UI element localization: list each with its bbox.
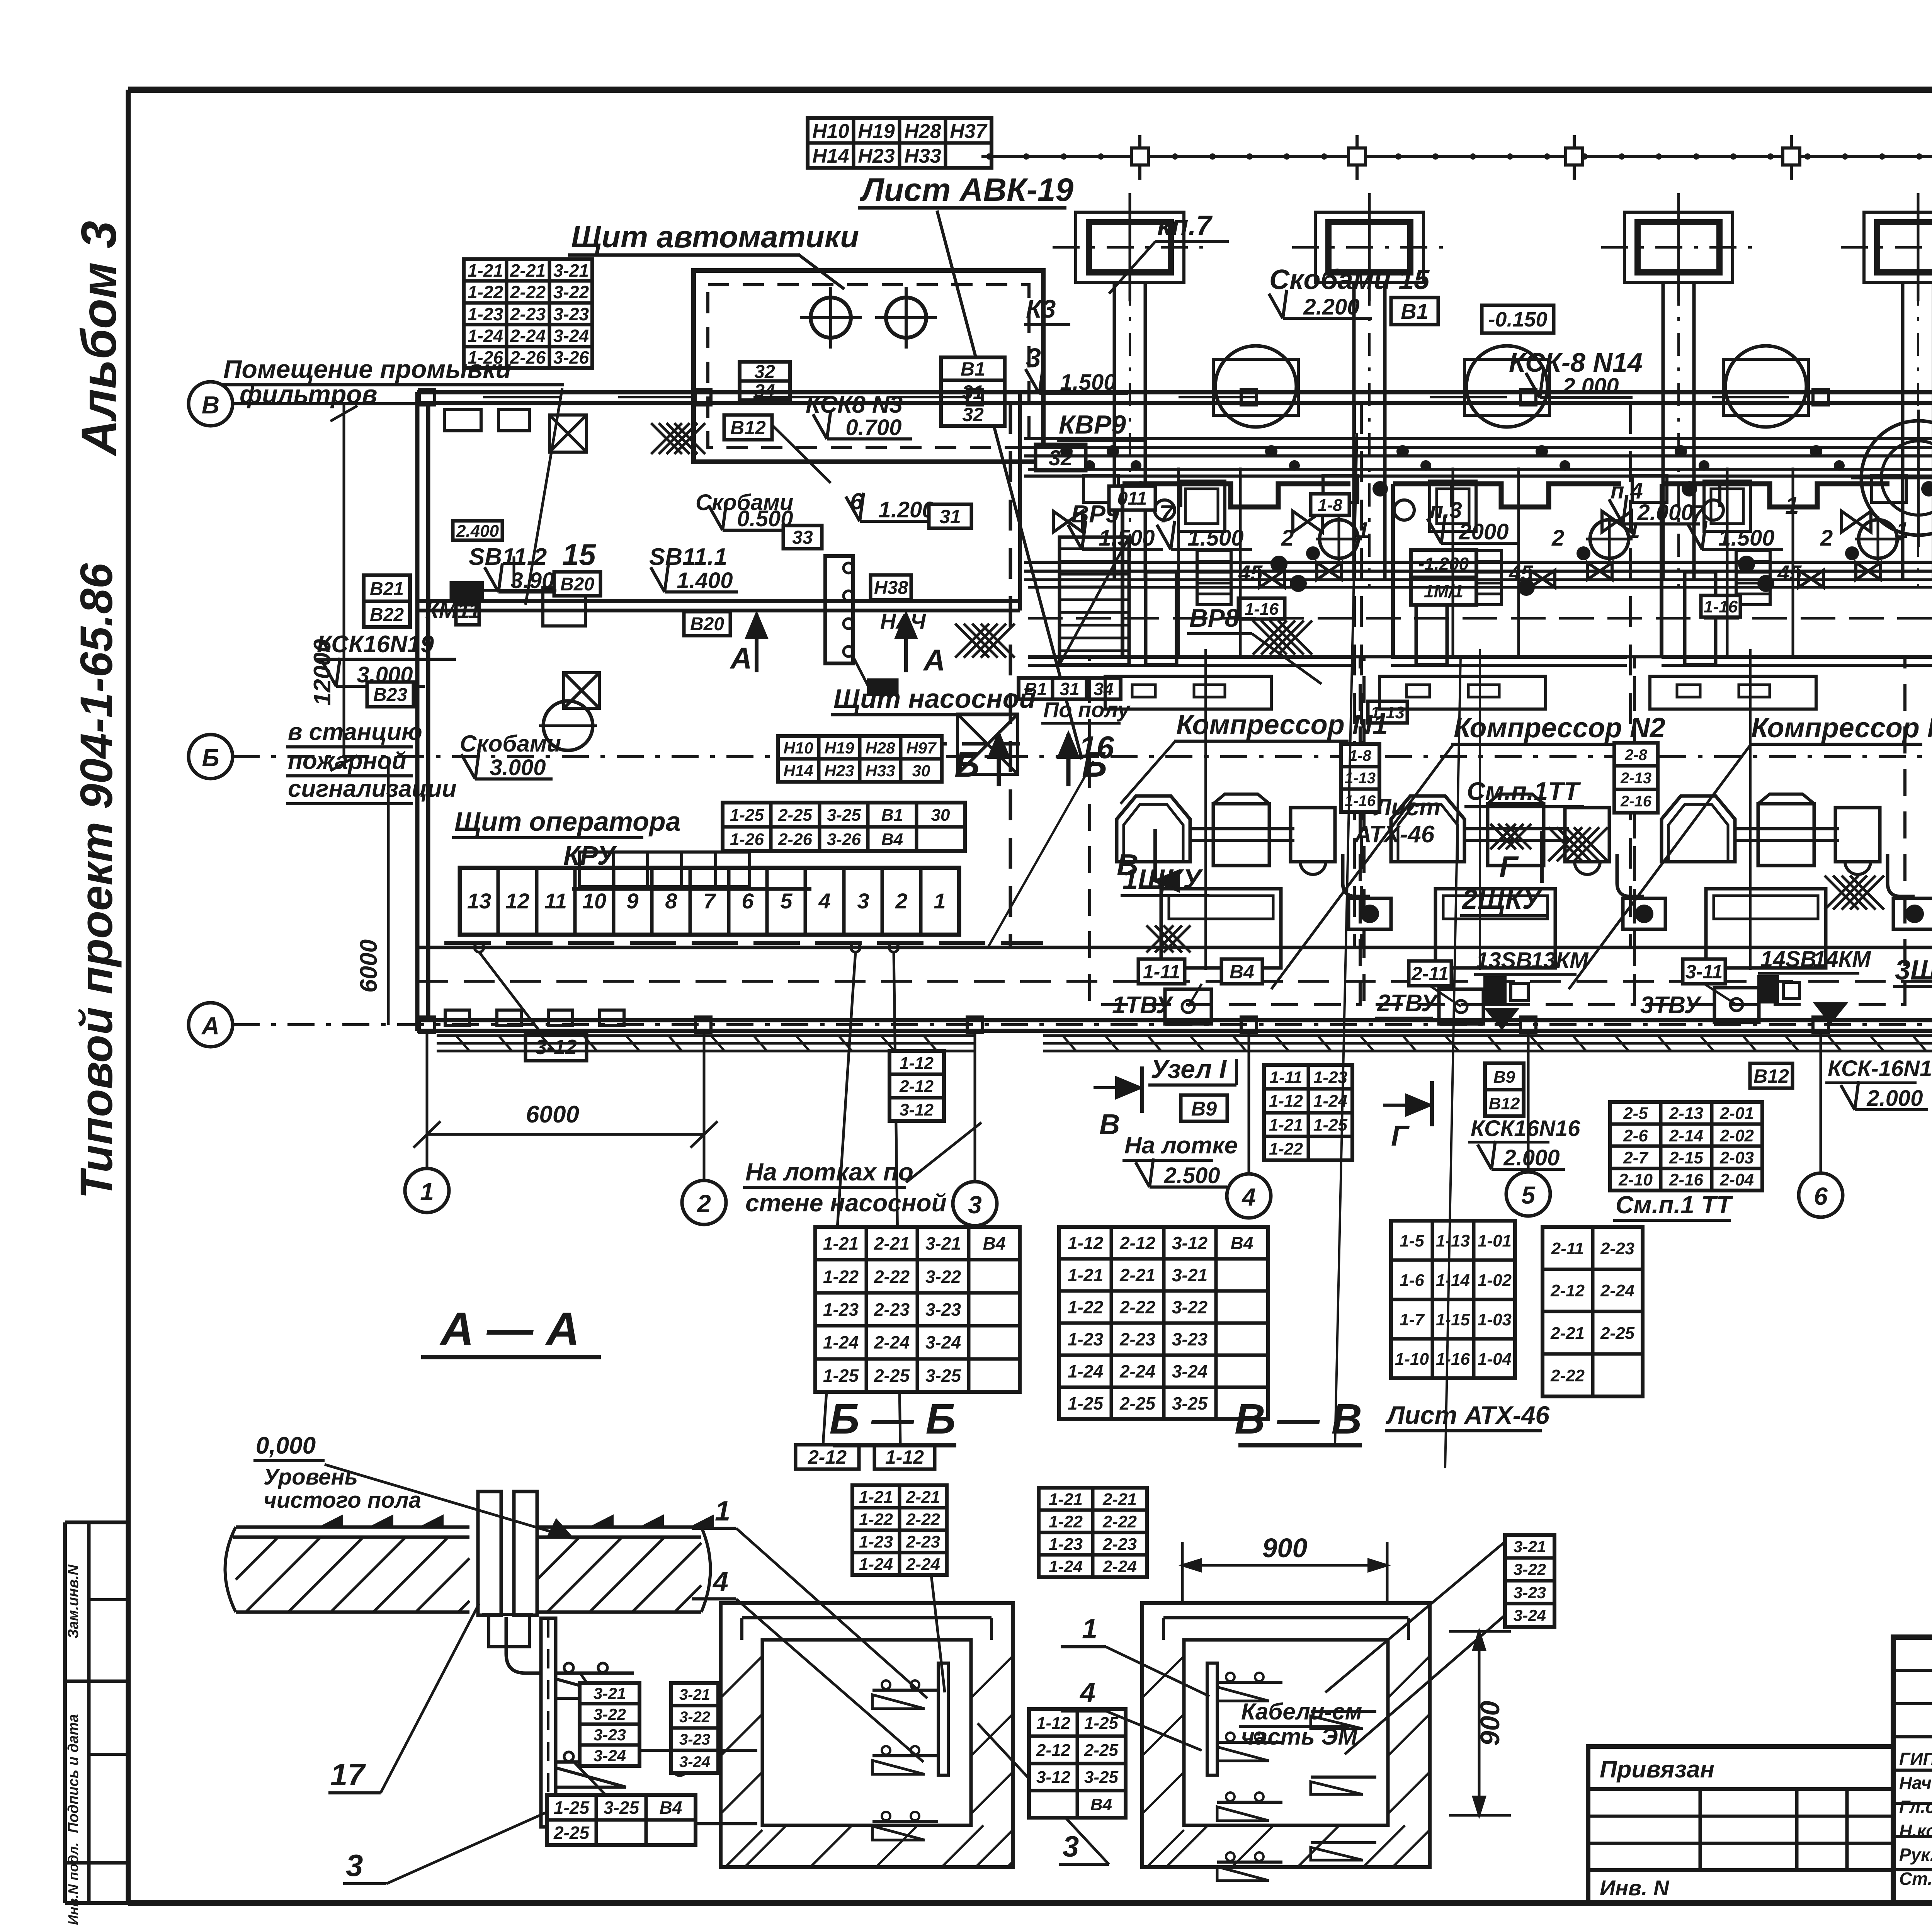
svg-text:2-23: 2-23 [906, 1532, 940, 1551]
table 32/34 [740, 362, 790, 400]
axis A circle [189, 1003, 233, 1047]
svg-text:1-23: 1-23 [468, 304, 503, 324]
table B-B col2 [1039, 1488, 1147, 1577]
flag 2.000 [1540, 396, 1633, 399]
leaders corridor [1188, 984, 1202, 1007]
ladder symbol [1197, 551, 1231, 605]
svg-text:2ТВУ: 2ТВУ [1377, 990, 1439, 1017]
dim 900 over V-V [1182, 1564, 1387, 1567]
svg-text:Компрессор N3: Компрессор N3 [1751, 713, 1932, 743]
svg-text:1-23: 1-23 [1049, 1535, 1083, 1554]
label 1-8 box hall1 [1311, 494, 1349, 515]
svg-text:В4: В4 [1090, 1795, 1112, 1814]
pump station panel [825, 556, 853, 663]
svg-text:2-04: 2-04 [1719, 1170, 1754, 1189]
svg-text:6: 6 [1814, 1182, 1828, 1210]
leader T15 to plan [987, 761, 1094, 949]
A-A bracket 2 [556, 1760, 634, 1764]
svg-text:В20: В20 [560, 574, 594, 595]
svg-text:900: 900 [1262, 1533, 1308, 1563]
svg-text:13: 13 [467, 889, 491, 913]
A-A floor line arrows [321, 1516, 342, 1527]
svg-text:2.200: 2.200 [1303, 294, 1359, 320]
hall partition 1-2 [1353, 403, 1356, 949]
drawing frame border [128, 87, 1932, 93]
svg-text:15: 15 [562, 537, 596, 571]
compressor unit N1 shaft [1190, 827, 1294, 830]
box 3-11 [1683, 959, 1725, 984]
svg-text:3-22: 3-22 [679, 1709, 710, 1726]
svg-text:Н.контр.: Н.контр. [1899, 1821, 1932, 1841]
svg-text:часть ЭМ: часть ЭМ [1241, 1724, 1358, 1750]
svg-text:Н10: Н10 [783, 739, 813, 757]
svg-text:стене насосной: стене насосной [745, 1189, 947, 1217]
svg-text:Компрессор N2: Компрессор N2 [1454, 713, 1665, 743]
svg-text:3-12: 3-12 [1172, 1233, 1207, 1253]
svg-text:2-01: 2-01 [1719, 1104, 1754, 1123]
svg-text:3.000: 3.000 [490, 755, 546, 780]
svg-text:2: 2 [1281, 526, 1294, 551]
svg-text:3-22: 3-22 [553, 282, 589, 302]
south wall [417, 1018, 1932, 1022]
vertical dimension 6000 [387, 757, 390, 1025]
machine bay front edge [1662, 484, 1889, 507]
svg-text:1-16: 1-16 [1704, 597, 1738, 616]
svg-text:3: 3 [1026, 343, 1041, 373]
title block outline [1893, 1637, 1932, 1903]
svg-text:Альбом 3: Альбом 3 [71, 221, 127, 457]
svg-text:31: 31 [939, 506, 961, 527]
svg-text:2: 2 [1551, 526, 1564, 551]
box 1-13 hall1 [1368, 701, 1407, 723]
svg-text:А: А [730, 641, 752, 675]
svg-text:2-03: 2-03 [1719, 1148, 1754, 1167]
svg-text:3-23: 3-23 [1172, 1329, 1207, 1349]
svg-text:3-24: 3-24 [594, 1747, 626, 1765]
svg-text:См.п.1 ТТ: См.п.1 ТТ [1616, 1191, 1733, 1219]
collector pipes [1024, 437, 1932, 440]
svg-text:Зам.инв.N: Зам.инв.N [65, 1564, 82, 1639]
box V20 second [684, 612, 730, 636]
svg-text:2-10: 2-10 [1618, 1170, 1653, 1189]
black dots equipment [1270, 556, 1287, 573]
svg-text:7: 7 [1159, 500, 1174, 528]
svg-text:3-23: 3-23 [553, 304, 589, 324]
corridor wall [417, 946, 1932, 949]
pit B-B cable stand [938, 1663, 948, 1775]
partition washroom right [1009, 403, 1012, 949]
svg-text:1-14: 1-14 [1436, 1271, 1470, 1290]
svg-text:1.500: 1.500 [1099, 526, 1155, 551]
svg-text:В4: В4 [983, 1233, 1006, 1253]
table H10 H19 H28 H37 [808, 118, 992, 168]
svg-text:чистого пола: чистого пола [264, 1488, 421, 1513]
title block left box privyazan [1588, 1747, 1893, 1903]
svg-text:Н33: Н33 [865, 762, 895, 780]
svg-text:В12: В12 [1489, 1094, 1520, 1113]
washroom pump circle [543, 701, 593, 750]
machine bay front edge [1393, 484, 1621, 507]
A-A vertical channel [541, 1618, 556, 1827]
axis V circle [189, 382, 233, 426]
crane hanger [1138, 135, 1141, 180]
box 31 [929, 504, 971, 528]
box V9 corridor [1181, 1095, 1227, 1121]
dashed panel outline [846, 742, 1020, 746]
crane hanger [1790, 135, 1793, 180]
svg-text:1: 1 [934, 889, 946, 913]
svg-text:3-24: 3-24 [1514, 1606, 1546, 1624]
svg-text:1-03: 1-03 [1478, 1310, 1512, 1329]
svg-text:Помещение промывки: Помещение промывки [223, 355, 511, 383]
svg-text:Лист АВК-19: Лист АВК-19 [859, 172, 1073, 208]
grid circle 2 [682, 1180, 726, 1225]
svg-text:Щит оператора: Щит оператора [454, 806, 681, 837]
svg-text:1М/1: 1М/1 [1424, 581, 1463, 601]
svg-text:1-25: 1-25 [823, 1366, 859, 1386]
dimension 6000 bottom [427, 1133, 704, 1136]
compressor unit N3 centerline [1749, 649, 1752, 970]
machine bay front edge [1122, 484, 1350, 507]
svg-text:2.000: 2.000 [1637, 500, 1693, 525]
stair block [1060, 537, 1129, 665]
box V1 [1391, 298, 1438, 325]
crane hanger [1573, 135, 1576, 180]
svg-text:В12: В12 [1753, 1065, 1789, 1087]
box 2-11 [1409, 961, 1451, 986]
svg-text:1-23: 1-23 [823, 1299, 859, 1320]
x-cross box near stairs [957, 714, 1018, 774]
svg-text:1-12: 1-12 [900, 1054, 934, 1073]
svg-text:2-02: 2-02 [1719, 1126, 1754, 1145]
svg-text:Ст.инж.: Ст.инж. [1899, 1869, 1932, 1889]
table group A col3 [815, 1227, 1020, 1392]
svg-text:13SB: 13SB [1476, 948, 1532, 973]
compressor unit N1 cable elbow [1343, 854, 1370, 896]
north wall [417, 390, 1932, 395]
compressor unit N1 equipment shelf [1105, 676, 1271, 709]
compressor unit N1 bearing [1291, 808, 1335, 862]
svg-text:8: 8 [665, 889, 677, 913]
svg-text:31: 31 [1060, 679, 1079, 699]
svg-text:1-8: 1-8 [1349, 747, 1372, 764]
svg-text:1-8: 1-8 [1318, 496, 1342, 515]
svg-text:Лист: Лист [1373, 794, 1440, 821]
stack V9 V12 [1485, 1063, 1524, 1116]
table group 2-11 [1543, 1227, 1643, 1396]
svg-text:3-22: 3-22 [594, 1705, 626, 1723]
svg-text:3-21: 3-21 [553, 260, 589, 281]
leader to automation panel [799, 255, 844, 289]
svg-text:2: 2 [895, 889, 907, 913]
svg-text:3-24: 3-24 [925, 1332, 961, 1352]
svg-text:3-12: 3-12 [1036, 1768, 1071, 1787]
svg-text:1-25: 1-25 [1084, 1714, 1119, 1733]
flag 2.200 [1283, 317, 1372, 320]
compressor unit N2 motor [1488, 804, 1544, 866]
svg-text:2-13: 2-13 [1669, 1104, 1703, 1123]
svg-text:1: 1 [1082, 1614, 1097, 1645]
svg-text:2-21: 2-21 [510, 260, 546, 281]
svg-text:3-22: 3-22 [925, 1267, 961, 1287]
pit V-V outline [1142, 1603, 1430, 1867]
svg-text:2-24: 2-24 [906, 1555, 940, 1574]
window slots in north wall [483, 396, 560, 398]
svg-text:Н14: Н14 [783, 762, 813, 780]
svg-text:13КМ: 13КМ [1531, 948, 1589, 973]
table 1-21..3-26 top left [464, 259, 592, 368]
svg-text:1-15: 1-15 [1436, 1310, 1470, 1329]
grid circle 4 [1227, 1174, 1271, 1218]
svg-text:2-26: 2-26 [778, 830, 813, 849]
svg-text:3-11: 3-11 [1685, 961, 1723, 983]
svg-text:3-24: 3-24 [1172, 1361, 1207, 1381]
automation panel rectangle [694, 270, 1043, 462]
svg-text:2-25: 2-25 [778, 806, 813, 825]
svg-text:2-25: 2-25 [874, 1366, 910, 1386]
svg-text:В1: В1 [961, 358, 985, 380]
svg-text:3-21: 3-21 [1514, 1537, 1546, 1556]
svg-text:В21: В21 [370, 579, 404, 599]
svg-text:Рук.гр.: Рук.гр. [1899, 1845, 1932, 1865]
svg-text:Н10: Н10 [812, 120, 849, 143]
compressor unit N3 equipment shelf [1650, 676, 1816, 709]
svg-text:Н28: Н28 [904, 120, 941, 143]
svg-text:А: А [201, 1012, 219, 1040]
svg-text:1-22: 1-22 [823, 1267, 859, 1287]
compressor unit N1 centerline [1204, 649, 1207, 970]
box V12 [724, 415, 772, 440]
svg-text:Компрессор N1: Компрессор N1 [1176, 709, 1388, 740]
svg-text:1-22: 1-22 [1049, 1512, 1083, 1531]
svg-text:3-21: 3-21 [1172, 1265, 1207, 1285]
svg-text:1-12: 1-12 [885, 1446, 924, 1468]
svg-text:В9: В9 [1493, 1068, 1515, 1087]
svg-text:3-24: 3-24 [553, 326, 589, 346]
svg-text:Н19: Н19 [824, 739, 854, 757]
svg-text:К3: К3 [1026, 294, 1056, 323]
13SB device symbols [1485, 978, 1505, 1005]
svg-text:1-21: 1-21 [859, 1488, 893, 1507]
svg-text:1-16: 1-16 [1245, 600, 1279, 619]
svg-text:6000: 6000 [526, 1101, 579, 1128]
svg-text:3-23: 3-23 [1514, 1583, 1546, 1602]
svg-text:1-5: 1-5 [1400, 1231, 1424, 1250]
svg-text:1-26: 1-26 [730, 830, 764, 849]
svg-text:17: 17 [330, 1757, 366, 1792]
svg-text:2-22: 2-22 [1550, 1366, 1585, 1385]
svg-text:2-25: 2-25 [1119, 1393, 1156, 1413]
axis B circle [189, 735, 233, 779]
stand rectangle [1146, 572, 1177, 665]
svg-text:2-11: 2-11 [1411, 963, 1449, 985]
equipment stands upper halls [1179, 481, 1225, 531]
svg-text:На лотках по: На лотках по [745, 1158, 913, 1186]
A-A elbow pipe [506, 1617, 541, 1673]
svg-text:2-24: 2-24 [1600, 1281, 1634, 1300]
svg-text:2-21: 2-21 [874, 1233, 910, 1253]
svg-text:В4: В4 [881, 830, 903, 849]
svg-text:3ЩКУ: 3ЩКУ [1895, 955, 1932, 986]
pit V-V cable stand [1207, 1663, 1217, 1775]
svg-text:5: 5 [1521, 1181, 1536, 1209]
box V4 corridor [1221, 959, 1262, 984]
stack 1-12 2-12 3-12 [889, 1051, 944, 1121]
dashed link lines [482, 589, 556, 592]
svg-text:2.000: 2.000 [1562, 374, 1619, 399]
svg-text:1.200: 1.200 [878, 497, 934, 522]
svg-text:1-21: 1-21 [1068, 1265, 1103, 1285]
risers and valves row [1083, 475, 1118, 502]
small instrument squares [451, 583, 482, 600]
svg-text:2-22: 2-22 [874, 1267, 910, 1287]
svg-text:2-25: 2-25 [553, 1823, 590, 1843]
box 1-11 [1138, 959, 1185, 984]
svg-text:2-11: 2-11 [1551, 1239, 1584, 1258]
svg-text:Н23: Н23 [858, 145, 895, 167]
svg-text:1.500: 1.500 [1187, 526, 1243, 551]
ladder symbol [1736, 551, 1770, 605]
box V12 corridor right [1750, 1063, 1793, 1088]
svg-text:КСК-16N17: КСК-16N17 [1828, 1056, 1932, 1081]
duct columns from vents [1113, 282, 1116, 580]
section mark G bottom [1430, 1081, 1434, 1126]
svg-text:0.700: 0.700 [845, 415, 901, 440]
svg-text:2.500: 2.500 [1163, 1163, 1220, 1188]
pit B-B wall hatching [721, 1656, 762, 1698]
table 1-25 .. V4 middle [723, 803, 965, 851]
section line B vertical [1335, 433, 1357, 1445]
svg-text:3-25: 3-25 [1084, 1768, 1119, 1787]
section mark V bottom [1140, 1066, 1144, 1113]
svg-text:3-21: 3-21 [925, 1233, 961, 1253]
table group B col4 [1059, 1227, 1268, 1419]
valves pair [1317, 563, 1342, 580]
box 1-12 leader label [874, 1445, 935, 1469]
grid circle 6 [1799, 1173, 1843, 1217]
leader na lotkakh [906, 1122, 981, 1182]
svg-text:Кабели-см: Кабели-см [1241, 1699, 1362, 1725]
svg-text:2-12: 2-12 [1036, 1741, 1071, 1760]
manifold lower [1028, 617, 1932, 620]
svg-text:SB11.2: SB11.2 [469, 544, 547, 570]
A-A slab hatched right part [537, 1526, 701, 1529]
grid circle 3 [953, 1182, 997, 1226]
washroom x-column [564, 673, 599, 708]
svg-text:14КМ: 14КМ [1813, 947, 1871, 972]
pit V-V wall hatching [1142, 1656, 1184, 1698]
svg-text:В12: В12 [730, 417, 766, 439]
svg-text:2-26: 2-26 [510, 347, 546, 367]
svg-text:2: 2 [1820, 526, 1833, 551]
svg-text:4: 4 [818, 889, 830, 913]
svg-text:2-24: 2-24 [1119, 1361, 1155, 1381]
svg-text:Щит автоматики: Щит автоматики [571, 219, 859, 254]
svg-text:В4: В4 [660, 1798, 682, 1818]
svg-text:2-12: 2-12 [1550, 1281, 1585, 1300]
svg-text:1-24: 1-24 [1068, 1361, 1103, 1381]
14SB device symbols [1759, 977, 1777, 1002]
table 1-12 1-25 center [1029, 1709, 1126, 1818]
svg-text:2-24: 2-24 [510, 326, 546, 346]
compressor unit N2 cable elbow [1617, 854, 1644, 896]
svg-text:1-22: 1-22 [1269, 1139, 1303, 1158]
stack 1-8 1-13 1-16 [1341, 744, 1379, 812]
svg-text:Типовой проект 904-1-65.86: Типовой проект 904-1-65.86 [71, 563, 122, 1199]
svg-text:1-11: 1-11 [1270, 1068, 1303, 1087]
stack 3-21..3-24 A-A [580, 1683, 639, 1766]
fan circle 3 [1725, 346, 1806, 427]
svg-text:1.400: 1.400 [677, 568, 733, 593]
leader to wash room [526, 388, 562, 605]
hatch decor marks [1253, 621, 1287, 655]
stack 3-21 right of V-V [1505, 1535, 1554, 1627]
table H10..30 middle [778, 736, 942, 782]
fan circle with cross [1320, 520, 1358, 558]
box 2-12 leader label [796, 1445, 859, 1469]
svg-text:5: 5 [780, 889, 793, 913]
svg-text:1-23: 1-23 [859, 1532, 893, 1551]
flag 1.400 [665, 590, 738, 594]
box 1-16 hall1 [1238, 598, 1285, 619]
svg-text:2-23: 2-23 [1600, 1239, 1634, 1258]
svg-text:3: 3 [346, 1848, 363, 1883]
svg-text:2.000: 2.000 [1503, 1145, 1560, 1170]
pedestal down [1718, 484, 1721, 507]
svg-text:В23: В23 [373, 685, 407, 705]
svg-text:3-21: 3-21 [679, 1686, 710, 1703]
svg-text:3-23: 3-23 [925, 1299, 961, 1320]
stack 2-8 2-13 2-16 [1614, 743, 1658, 813]
boxes V1 31 34 [1019, 678, 1121, 699]
svg-text:Н37: Н37 [950, 120, 987, 143]
svg-text:9: 9 [626, 889, 638, 913]
leader to 3-21 stack [1325, 1542, 1505, 1692]
column marks bottom [419, 1017, 435, 1032]
svg-text:1: 1 [1357, 518, 1369, 543]
svg-text:Подпись и дата: Подпись и дата [65, 1714, 82, 1833]
svg-text:12: 12 [505, 889, 529, 913]
svg-text:Уровень: Уровень [264, 1464, 358, 1490]
compressor unit N3 body [1662, 796, 1735, 862]
pit V-V cavity [1184, 1640, 1388, 1825]
svg-text:1-04: 1-04 [1478, 1350, 1512, 1369]
fan circle 2 [1466, 346, 1548, 427]
svg-text:1-11: 1-11 [1143, 961, 1180, 983]
svg-text:2-23: 2-23 [874, 1299, 910, 1320]
pedestal down [1179, 484, 1182, 507]
section line G vertical [1445, 657, 1461, 1468]
svg-text:1-22: 1-22 [1068, 1297, 1103, 1317]
svg-text:2-25: 2-25 [1084, 1741, 1119, 1760]
compressor unit N1 dashed bay [1090, 657, 1360, 1005]
svg-text:2-12: 2-12 [808, 1446, 847, 1468]
fan circle 1 [1215, 346, 1296, 427]
tank concentric circles [1861, 421, 1932, 535]
svg-text:1-13: 1-13 [1436, 1231, 1470, 1250]
stand rectangle [1416, 572, 1447, 665]
grid circle 5 [1506, 1172, 1550, 1216]
svg-text:2-14: 2-14 [1669, 1126, 1703, 1145]
A-A pipe sleeve [478, 1492, 501, 1615]
svg-text:1-01: 1-01 [1478, 1231, 1512, 1250]
pit B-B top slab [742, 1616, 992, 1619]
svg-text:Лист АТХ-46: Лист АТХ-46 [1386, 1401, 1550, 1429]
table 1-11 1-23 group [1264, 1065, 1352, 1160]
flag 0.700 [827, 437, 912, 440]
svg-text:Н33: Н33 [904, 145, 941, 167]
svg-text:2-22: 2-22 [1119, 1297, 1155, 1317]
